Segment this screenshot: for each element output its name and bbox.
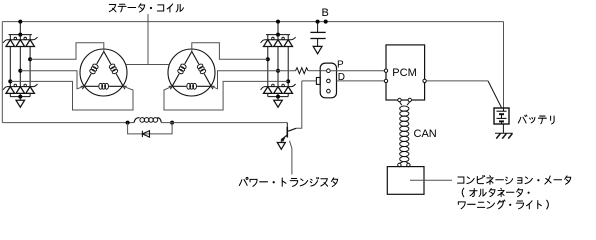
svg-text:D: D xyxy=(338,72,345,83)
svg-text:P: P xyxy=(337,60,344,71)
svg-text:PCM: PCM xyxy=(392,67,416,79)
svg-text:B: B xyxy=(322,7,329,19)
svg-text:CAN: CAN xyxy=(414,128,437,140)
